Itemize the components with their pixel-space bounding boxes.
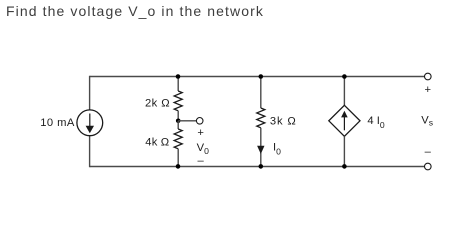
current source I1 (10 mA, arrow down) — [77, 110, 103, 136]
node: bottom rail junction at branch C — [342, 164, 347, 169]
wire: branch C from top rail to dependent source — [343, 77, 345, 106]
svg-text:4 I0: 4 I0 — [367, 115, 384, 130]
svg-text:+: + — [425, 84, 432, 96]
svg-text:+: + — [197, 127, 204, 139]
wire: dependent source to bottom rail — [343, 136, 345, 166]
wire: 2k resistor to Vo node — [177, 111, 179, 121]
svg-text:3k Ω: 3k Ω — [270, 115, 296, 127]
node: top rail junction at branch A — [176, 74, 181, 79]
resistor R1 2k — [174, 91, 182, 111]
node: bottom rail junction at branch B — [259, 164, 264, 169]
wire: branch B from top rail to 3k resistor — [260, 77, 262, 109]
wire: 4k resistor to bottom rail — [177, 149, 179, 167]
svg-text:–: – — [425, 146, 432, 158]
svg-text:Vs: Vs — [421, 115, 433, 128]
wire: top rail — [90, 76, 425, 78]
wire: Vo stub to terminal — [178, 120, 196, 122]
wire: 3k resistor to bottom rail (carries Io) — [260, 128, 262, 167]
arrow: Io current direction (down) — [257, 146, 264, 154]
node: top rail junction at branch B — [259, 74, 264, 79]
terminal: Vs bottom open circle — [425, 163, 432, 170]
wire: node to 4k resistor — [177, 121, 179, 129]
svg-text:–: – — [198, 155, 205, 167]
wire: left branch lower segment — [89, 136, 91, 167]
wire: branch A from top rail to 2k resistor — [177, 77, 179, 92]
terminal: Vs top open circle — [425, 73, 432, 80]
resistor R3 3k — [257, 108, 265, 128]
node: bottom rail junction at branch A — [176, 164, 181, 169]
wire: bottom rail — [90, 166, 425, 168]
svg-text:10 mA: 10 mA — [40, 117, 75, 129]
terminal: Vo open circle — [196, 118, 203, 125]
node: top rail junction at branch C — [342, 74, 347, 79]
title: problem statement — [6, 3, 264, 19]
svg-text:I0: I0 — [273, 142, 281, 157]
svg-text:2k Ω: 2k Ω — [145, 98, 170, 110]
dependent current source 4Io (diamond, arrow up) — [329, 105, 360, 136]
resistor R2 4k — [174, 129, 182, 149]
svg-text:4k Ω: 4k Ω — [145, 136, 169, 148]
wire: left branch upper segment — [89, 76, 91, 110]
node: Vo junction (between 2k and 4k) — [176, 119, 181, 124]
